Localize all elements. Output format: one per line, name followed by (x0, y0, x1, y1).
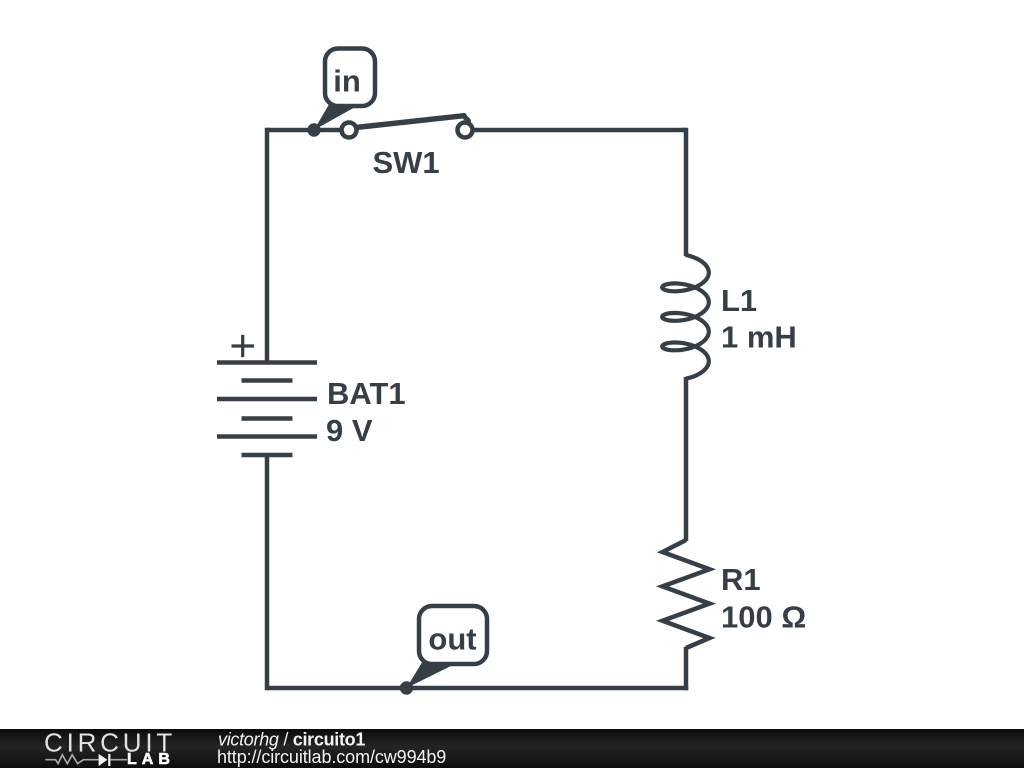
wire right vertical: L1 bottom to R1 top (684, 377, 689, 541)
battery short plate 2 (242, 416, 293, 421)
wire right vertical: R1 bottom to bottom-right corner (684, 647, 689, 690)
battery long plate 1 (+) (217, 360, 317, 365)
node in tail (314, 101, 357, 130)
wire top-left: node in to switch pivot (267, 128, 341, 133)
switch SW1 (342, 116, 473, 180)
node out rounded box (419, 606, 487, 664)
svg-text:http://circuitlab.com/cw994b9: http://circuitlab.com/cw994b9 (217, 747, 446, 767)
battery short plate 1 (242, 378, 293, 383)
battery plus sign (232, 335, 255, 357)
wire left vertical: BAT1 - terminal down to bottom-left corner (265, 455, 270, 690)
node in flag bubble (307, 49, 375, 137)
node in rounded box (325, 49, 375, 107)
switch lever (356, 116, 464, 128)
battery BAT1 (217, 363, 317, 456)
wire switch to top-right corner (473, 128, 686, 133)
wire bottom: bottom-right corner to node out to bottom-left corner (267, 686, 688, 691)
footer bar (0, 728, 1024, 768)
node out flag bubble (400, 606, 487, 695)
resistor R1 zigzag (663, 540, 710, 648)
wire left vertical: top wire down to BAT1 + terminal (265, 128, 270, 362)
svg-text:LAB: LAB (127, 751, 175, 768)
node out junction dot (400, 681, 413, 694)
battery long plate 2 (217, 397, 317, 402)
svg-text:R1: R1 (721, 562, 761, 597)
svg-text:BAT1: BAT1 (327, 376, 406, 411)
svg-text:1 mH: 1 mH (721, 320, 797, 355)
battery long plate 3 (217, 434, 317, 439)
switch right terminal circle (458, 123, 473, 138)
svg-text:100 Ω: 100 Ω (721, 600, 806, 635)
svg-text:9 V: 9 V (326, 413, 373, 448)
logo resistor-diode squiggle (45, 754, 127, 766)
node out tail (407, 659, 458, 688)
wire right vertical: corner down to L1 top (684, 128, 689, 256)
svg-text:L1: L1 (721, 283, 757, 318)
svg-text:in: in (333, 64, 361, 99)
node in junction dot (307, 123, 320, 136)
svg-text:out: out (428, 622, 476, 657)
battery short plate 3 (-) (242, 453, 293, 458)
inductor L1 coil (662, 255, 709, 379)
svg-text:SW1: SW1 (373, 145, 440, 180)
switch pivot terminal circle (342, 123, 357, 138)
